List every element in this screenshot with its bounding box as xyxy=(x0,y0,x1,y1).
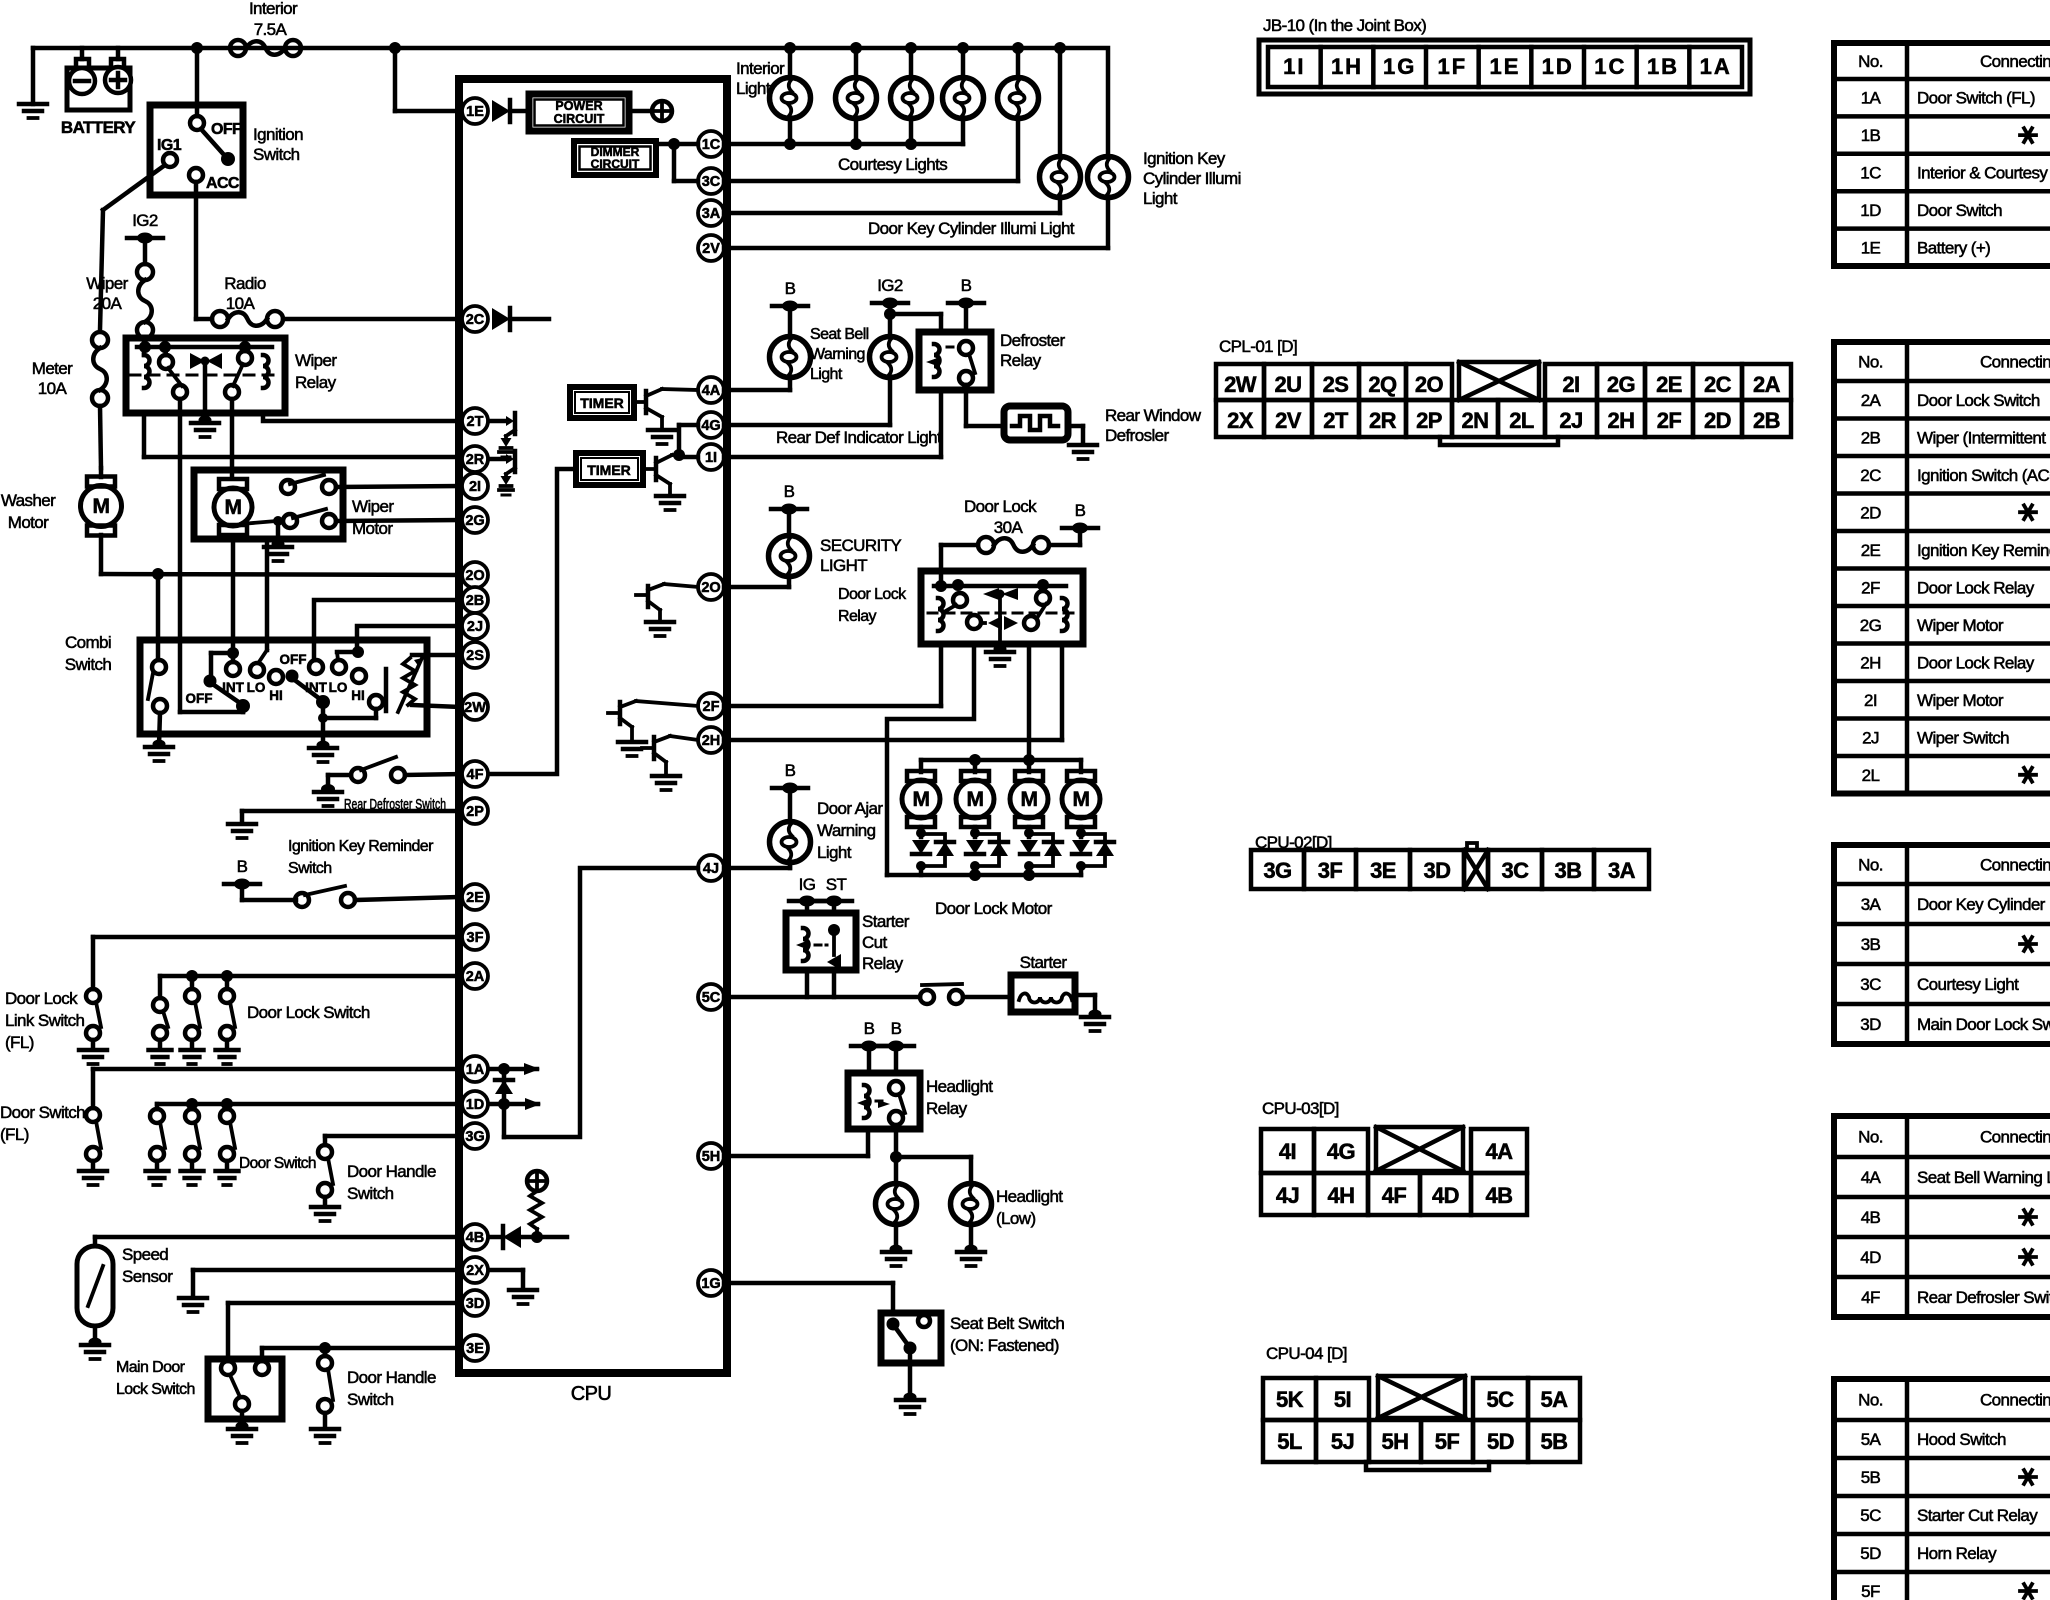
svg-text:(FL): (FL) xyxy=(5,1033,34,1052)
svg-text:Connecting: Connecting xyxy=(1980,52,2050,71)
svg-text:OFF: OFF xyxy=(186,691,213,706)
svg-text:Courtesy Light: Courtesy Light xyxy=(1917,975,2019,994)
svg-text:4A: 4A xyxy=(702,383,721,399)
svg-text:5K: 5K xyxy=(1276,1387,1304,1412)
svg-text:M: M xyxy=(1021,788,1038,811)
svg-text:Door Handle: Door Handle xyxy=(347,1368,436,1387)
svg-text:M: M xyxy=(1073,788,1090,811)
svg-text:Battery (+): Battery (+) xyxy=(1917,238,1990,257)
svg-text:3A: 3A xyxy=(702,206,721,222)
svg-text:HI: HI xyxy=(269,688,283,703)
svg-text:Motor: Motor xyxy=(352,519,393,538)
svg-text:B: B xyxy=(961,276,972,295)
svg-text:3D: 3D xyxy=(1860,1015,1881,1034)
svg-text:5B: 5B xyxy=(1541,1429,1568,1454)
svg-text:4A: 4A xyxy=(1486,1139,1514,1164)
svg-text:Relay: Relay xyxy=(862,954,904,973)
svg-text:5H: 5H xyxy=(1382,1429,1409,1454)
svg-text:OFF: OFF xyxy=(280,652,307,667)
svg-text:2G: 2G xyxy=(465,513,484,529)
svg-text:Rear Defrosler Switc: Rear Defrosler Switc xyxy=(1917,1288,2050,1307)
svg-text:No.: No. xyxy=(1858,856,1883,875)
svg-text:Main Door: Main Door xyxy=(116,1359,186,1376)
svg-text:Switch: Switch xyxy=(347,1390,394,1409)
svg-text:Door Lock Motor: Door Lock Motor xyxy=(935,899,1053,918)
svg-text:Wiper Motor: Wiper Motor xyxy=(1917,691,2004,710)
svg-text:2C: 2C xyxy=(1704,372,1732,397)
svg-text:4B: 4B xyxy=(1486,1183,1513,1208)
svg-text:1D: 1D xyxy=(1542,54,1574,79)
svg-text:OFF: OFF xyxy=(211,121,242,138)
svg-text:7.5A: 7.5A xyxy=(254,20,288,39)
svg-text:No.: No. xyxy=(1858,52,1883,71)
svg-text:4B: 4B xyxy=(1861,1208,1881,1227)
svg-text:M: M xyxy=(967,788,984,811)
svg-text:2G: 2G xyxy=(1607,372,1635,397)
svg-text:2J: 2J xyxy=(467,619,483,635)
svg-text:Relay: Relay xyxy=(926,1099,968,1118)
svg-text:Wiper: Wiper xyxy=(352,497,394,516)
svg-text:CIRCUIT: CIRCUIT xyxy=(591,157,640,171)
svg-text:2X: 2X xyxy=(466,1263,484,1279)
svg-text:LO: LO xyxy=(329,680,348,695)
svg-text:BATTERY: BATTERY xyxy=(61,118,136,137)
svg-text:B: B xyxy=(785,761,796,780)
svg-text:2N: 2N xyxy=(1462,408,1489,433)
svg-text:2X: 2X xyxy=(1227,408,1254,433)
svg-text:Horn Relay: Horn Relay xyxy=(1917,1544,1997,1563)
svg-text:Link Switch: Link Switch xyxy=(5,1011,85,1030)
svg-text:Rear Def Indicator Light: Rear Def Indicator Light xyxy=(776,428,942,447)
svg-text:1C: 1C xyxy=(1860,164,1881,183)
svg-text:2E: 2E xyxy=(466,890,484,906)
svg-text:5F: 5F xyxy=(1861,1582,1880,1600)
svg-text:4J: 4J xyxy=(703,861,719,877)
svg-text:5I: 5I xyxy=(1334,1387,1351,1412)
svg-text:M: M xyxy=(913,788,930,811)
svg-text:1A: 1A xyxy=(466,1062,485,1078)
svg-text:2P: 2P xyxy=(466,804,484,820)
svg-text:Switch: Switch xyxy=(253,145,300,164)
svg-text:CPU-04 [D]: CPU-04 [D] xyxy=(1266,1344,1347,1363)
svg-text:2J: 2J xyxy=(1862,728,1879,747)
svg-text:4G: 4G xyxy=(1327,1139,1355,1164)
svg-text:2Q: 2Q xyxy=(1368,372,1397,397)
svg-text:3D: 3D xyxy=(1424,858,1451,883)
svg-text:2R: 2R xyxy=(1369,408,1397,433)
svg-text:2L: 2L xyxy=(1862,766,1880,785)
svg-text:Sensor: Sensor xyxy=(122,1267,173,1286)
svg-text:5F: 5F xyxy=(1435,1429,1460,1454)
svg-text:B: B xyxy=(785,279,796,298)
svg-text:1D: 1D xyxy=(1860,201,1881,220)
svg-text:Speed: Speed xyxy=(122,1245,168,1264)
svg-text:2B: 2B xyxy=(1861,428,1881,447)
svg-text:2L: 2L xyxy=(1509,408,1534,433)
svg-text:30A: 30A xyxy=(994,518,1024,537)
svg-text:JB-10 (In the Joint Box): JB-10 (In the Joint Box) xyxy=(1263,16,1426,35)
svg-text:Ignition Key: Ignition Key xyxy=(1143,149,1226,168)
svg-text:Seat Bell: Seat Bell xyxy=(810,326,869,343)
svg-text:2I: 2I xyxy=(469,479,481,495)
svg-text:1B: 1B xyxy=(1647,54,1679,79)
svg-text:Switch: Switch xyxy=(65,655,112,674)
svg-text:4F: 4F xyxy=(467,767,484,783)
svg-text:5D: 5D xyxy=(1860,1544,1881,1563)
svg-text:2C: 2C xyxy=(466,312,485,328)
svg-text:3F: 3F xyxy=(1318,858,1343,883)
svg-text:4F: 4F xyxy=(1382,1183,1407,1208)
svg-text:Switch: Switch xyxy=(347,1184,394,1203)
svg-text:Ignition: Ignition xyxy=(253,125,303,144)
svg-text:Door Lock: Door Lock xyxy=(5,989,78,1008)
svg-text:10A: 10A xyxy=(38,379,68,398)
svg-text:2H: 2H xyxy=(1860,653,1881,672)
svg-text:Washer: Washer xyxy=(1,491,56,510)
svg-text:2I: 2I xyxy=(1562,372,1579,397)
svg-text:2S: 2S xyxy=(466,648,484,664)
svg-text:4D: 4D xyxy=(1860,1248,1881,1267)
svg-text:(ON: Fastened): (ON: Fastened) xyxy=(950,1336,1059,1355)
svg-text:4F: 4F xyxy=(1861,1288,1880,1307)
svg-text:Switch: Switch xyxy=(288,860,332,877)
svg-text:Door Handle: Door Handle xyxy=(347,1162,436,1181)
svg-text:Ignition Key Reminder: Ignition Key Reminder xyxy=(288,838,434,855)
svg-text:Starter Cut Relay: Starter Cut Relay xyxy=(1917,1506,2038,1525)
svg-text:No.: No. xyxy=(1858,1391,1883,1410)
svg-text:20A: 20A xyxy=(93,294,123,313)
svg-text:Defrosler: Defrosler xyxy=(1105,426,1170,445)
svg-text:Cylinder Illumi: Cylinder Illumi xyxy=(1143,169,1241,188)
svg-text:B: B xyxy=(784,482,795,501)
svg-text:2T: 2T xyxy=(1323,408,1349,433)
svg-text:Interior & Courtesy L: Interior & Courtesy L xyxy=(1917,164,2050,183)
svg-text:2O: 2O xyxy=(701,580,720,596)
svg-text:5C: 5C xyxy=(1860,1506,1881,1525)
svg-text:Light: Light xyxy=(736,79,771,98)
svg-text:2D: 2D xyxy=(1704,408,1731,433)
svg-text:1E: 1E xyxy=(1490,54,1521,79)
svg-text:Combi: Combi xyxy=(65,633,111,652)
svg-text:1G: 1G xyxy=(701,1276,720,1292)
svg-text:CIRCUIT: CIRCUIT xyxy=(554,112,605,126)
svg-text:1E: 1E xyxy=(1861,238,1881,257)
svg-text:Door Key Cylinder Illumi Ligh: Door Key Cylinder Illumi Light xyxy=(868,219,1075,238)
svg-text:4G: 4G xyxy=(701,418,720,434)
svg-text:LIGHT: LIGHT xyxy=(820,556,867,575)
svg-text:Wiper Motor: Wiper Motor xyxy=(1917,616,2004,635)
svg-text:2G: 2G xyxy=(1860,616,1881,635)
svg-text:2F: 2F xyxy=(703,699,720,715)
svg-text:IG2: IG2 xyxy=(132,211,158,230)
svg-text:Ignition Key Reminde: Ignition Key Reminde xyxy=(1917,541,2050,560)
svg-text:Warning: Warning xyxy=(810,346,865,363)
svg-text:Lock Switch: Lock Switch xyxy=(116,1381,195,1398)
svg-text:Defroster: Defroster xyxy=(1000,331,1065,350)
svg-text:INT: INT xyxy=(305,680,328,695)
svg-text:Seat Belt Switch: Seat Belt Switch xyxy=(950,1314,1064,1333)
svg-text:CPL-01 [D]: CPL-01 [D] xyxy=(1219,337,1297,356)
svg-text:2V: 2V xyxy=(1275,408,1302,433)
svg-text:2V: 2V xyxy=(702,241,720,257)
svg-text:3C: 3C xyxy=(702,174,721,190)
svg-text:B: B xyxy=(237,857,248,876)
svg-text:Connecting: Connecting xyxy=(1980,856,2050,875)
svg-text:3E: 3E xyxy=(466,1341,484,1357)
svg-text:3B: 3B xyxy=(1861,935,1881,954)
svg-text:Light: Light xyxy=(1143,189,1178,208)
svg-text:B: B xyxy=(1075,501,1086,520)
svg-text:(FL): (FL) xyxy=(0,1125,29,1144)
svg-text:Door Switch: Door Switch xyxy=(0,1103,85,1122)
svg-text:4B: 4B xyxy=(466,1230,485,1246)
svg-text:5C: 5C xyxy=(1487,1387,1515,1412)
svg-text:2A: 2A xyxy=(466,969,485,985)
svg-text:Rear Window: Rear Window xyxy=(1105,406,1202,425)
svg-text:1E: 1E xyxy=(466,104,484,120)
svg-text:5B: 5B xyxy=(1861,1468,1881,1487)
svg-text:3G: 3G xyxy=(465,1129,484,1145)
svg-text:B: B xyxy=(891,1019,902,1038)
svg-text:Wiper: Wiper xyxy=(295,351,337,370)
svg-text:Meter: Meter xyxy=(32,359,73,378)
svg-text:2H: 2H xyxy=(1608,408,1635,433)
svg-text:5A: 5A xyxy=(1541,1387,1569,1412)
svg-text:Ignition Switch (ACC: Ignition Switch (ACC xyxy=(1917,466,2050,485)
svg-text:Door Lock Relay: Door Lock Relay xyxy=(1917,578,2035,597)
svg-text:(Low): (Low) xyxy=(996,1209,1036,1228)
svg-text:1D: 1D xyxy=(466,1097,485,1113)
svg-text:1H: 1H xyxy=(1331,54,1363,79)
svg-text:5H: 5H xyxy=(702,1149,721,1165)
svg-text:INT: INT xyxy=(222,680,245,695)
svg-text:5C: 5C xyxy=(702,990,721,1006)
svg-text:Wiper: Wiper xyxy=(86,274,128,293)
svg-text:Door Key Cylinder Il: Door Key Cylinder Il xyxy=(1917,895,2050,914)
svg-text:5A: 5A xyxy=(1861,1430,1882,1449)
svg-text:Relay: Relay xyxy=(1000,351,1042,370)
svg-text:No.: No. xyxy=(1858,353,1883,372)
svg-text:4D: 4D xyxy=(1432,1183,1459,1208)
svg-text:3A: 3A xyxy=(1608,858,1636,883)
svg-text:Door Lock: Door Lock xyxy=(964,497,1037,516)
svg-text:10A: 10A xyxy=(226,294,256,313)
svg-text:4A: 4A xyxy=(1861,1168,1882,1187)
svg-text:Door Lock Switch: Door Lock Switch xyxy=(247,1003,370,1022)
svg-text:Courtesy Lights: Courtesy Lights xyxy=(838,155,947,174)
svg-text:Hood Switch: Hood Switch xyxy=(1917,1430,2006,1449)
svg-text:No.: No. xyxy=(1858,1128,1883,1147)
svg-text:3D: 3D xyxy=(466,1296,485,1312)
svg-text:2F: 2F xyxy=(1657,408,1682,433)
svg-text:5L: 5L xyxy=(1277,1429,1302,1454)
svg-text:Starter: Starter xyxy=(1020,953,1068,972)
svg-text:2D: 2D xyxy=(1860,503,1881,522)
svg-text:Headlight: Headlight xyxy=(996,1187,1063,1206)
svg-text:IG: IG xyxy=(799,875,816,894)
svg-text:5J: 5J xyxy=(1331,1429,1354,1454)
svg-text:Door Lock Switch: Door Lock Switch xyxy=(1917,391,2040,410)
svg-text:2T: 2T xyxy=(467,414,484,430)
svg-text:HI: HI xyxy=(351,688,365,703)
svg-text:1I: 1I xyxy=(705,450,717,466)
svg-text:Door Ajar: Door Ajar xyxy=(817,799,883,818)
svg-text:Door Switch (FL): Door Switch (FL) xyxy=(1917,89,2035,108)
svg-text:2H: 2H xyxy=(702,733,721,749)
svg-text:Main Door Lock Sw: Main Door Lock Sw xyxy=(1917,1015,2050,1034)
svg-text:3B: 3B xyxy=(1555,858,1582,883)
svg-text:3C: 3C xyxy=(1860,975,1881,994)
svg-text:2E: 2E xyxy=(1656,372,1682,397)
svg-text:Motor: Motor xyxy=(8,513,49,532)
svg-text:Relay: Relay xyxy=(295,373,337,392)
svg-text:4J: 4J xyxy=(1276,1183,1299,1208)
svg-text:Connecting: Connecting xyxy=(1980,353,2050,372)
svg-text:2B: 2B xyxy=(466,593,485,609)
svg-text:2J: 2J xyxy=(1559,408,1582,433)
svg-text:Door Switch: Door Switch xyxy=(239,1155,316,1172)
svg-text:Headlight: Headlight xyxy=(926,1077,993,1096)
svg-text:3C: 3C xyxy=(1502,858,1530,883)
svg-text:TIMER: TIMER xyxy=(580,395,624,411)
svg-text:2E: 2E xyxy=(1861,541,1881,560)
svg-text:Interior: Interior xyxy=(249,0,298,18)
svg-text:POWER: POWER xyxy=(555,99,602,113)
svg-text:Warning: Warning xyxy=(817,821,876,840)
svg-text:1G: 1G xyxy=(1383,54,1416,79)
svg-text:Radio: Radio xyxy=(224,274,266,293)
svg-text:2P: 2P xyxy=(1416,408,1442,433)
svg-text:3E: 3E xyxy=(1370,858,1396,883)
svg-text:Starter: Starter xyxy=(862,912,910,931)
svg-text:Relay: Relay xyxy=(838,608,877,625)
svg-text:2C: 2C xyxy=(1860,466,1881,485)
svg-text:CPU: CPU xyxy=(571,1383,611,1405)
svg-text:1C: 1C xyxy=(702,137,721,153)
svg-text:5D: 5D xyxy=(1487,1429,1514,1454)
svg-text:2B: 2B xyxy=(1753,408,1780,433)
svg-text:IG1: IG1 xyxy=(157,137,182,154)
svg-text:3F: 3F xyxy=(467,930,484,946)
svg-text:Light: Light xyxy=(810,366,843,383)
svg-text:ACC: ACC xyxy=(206,175,240,192)
svg-text:SECURITY: SECURITY xyxy=(820,536,901,555)
svg-text:2R: 2R xyxy=(466,452,485,468)
svg-text:2A: 2A xyxy=(1861,391,1882,410)
svg-text:2O: 2O xyxy=(465,568,484,584)
svg-text:Door Lock Relay: Door Lock Relay xyxy=(1917,653,2035,672)
svg-text:1F: 1F xyxy=(1437,54,1467,79)
svg-text:2I: 2I xyxy=(1864,691,1877,710)
svg-text:Interior: Interior xyxy=(736,59,785,78)
svg-text:1I: 1I xyxy=(1283,54,1305,79)
svg-text:Connecting: Connecting xyxy=(1980,1128,2050,1147)
svg-text:M: M xyxy=(225,496,242,519)
svg-text:M: M xyxy=(93,495,110,518)
svg-text:2O: 2O xyxy=(1415,372,1444,397)
svg-text:TIMER: TIMER xyxy=(587,462,631,478)
svg-text:Wiper Switch: Wiper Switch xyxy=(1917,728,2009,747)
svg-text:2F: 2F xyxy=(1861,578,1880,597)
svg-text:1A: 1A xyxy=(1700,54,1732,79)
svg-text:1B: 1B xyxy=(1861,126,1881,145)
svg-text:Door Switch: Door Switch xyxy=(1917,201,2002,220)
svg-text:Connecting: Connecting xyxy=(1980,1391,2050,1410)
svg-text:4H: 4H xyxy=(1328,1183,1355,1208)
svg-text:3G: 3G xyxy=(1263,858,1291,883)
svg-text:4I: 4I xyxy=(1279,1139,1296,1164)
svg-text:CPU-03[D]: CPU-03[D] xyxy=(1262,1099,1339,1118)
svg-text:Light: Light xyxy=(817,843,852,862)
svg-text:2U: 2U xyxy=(1275,372,1302,397)
svg-text:1C: 1C xyxy=(1594,54,1626,79)
svg-text:ST: ST xyxy=(826,875,847,894)
svg-text:Cut: Cut xyxy=(862,933,888,952)
svg-text:Wiper (Intermittent S: Wiper (Intermittent S xyxy=(1917,428,2050,447)
svg-text:3A: 3A xyxy=(1861,895,1882,914)
svg-text:2W: 2W xyxy=(1224,372,1257,397)
svg-text:LO: LO xyxy=(247,680,266,695)
svg-text:1A: 1A xyxy=(1861,89,1882,108)
svg-text:2S: 2S xyxy=(1323,372,1349,397)
svg-text:Door Lock: Door Lock xyxy=(838,586,907,603)
svg-text:2A: 2A xyxy=(1753,372,1781,397)
svg-text:IG2: IG2 xyxy=(877,276,903,295)
svg-text:2W: 2W xyxy=(464,700,486,716)
svg-text:Seat Bell Warning L: Seat Bell Warning L xyxy=(1917,1168,2050,1187)
svg-text:B: B xyxy=(864,1019,875,1038)
